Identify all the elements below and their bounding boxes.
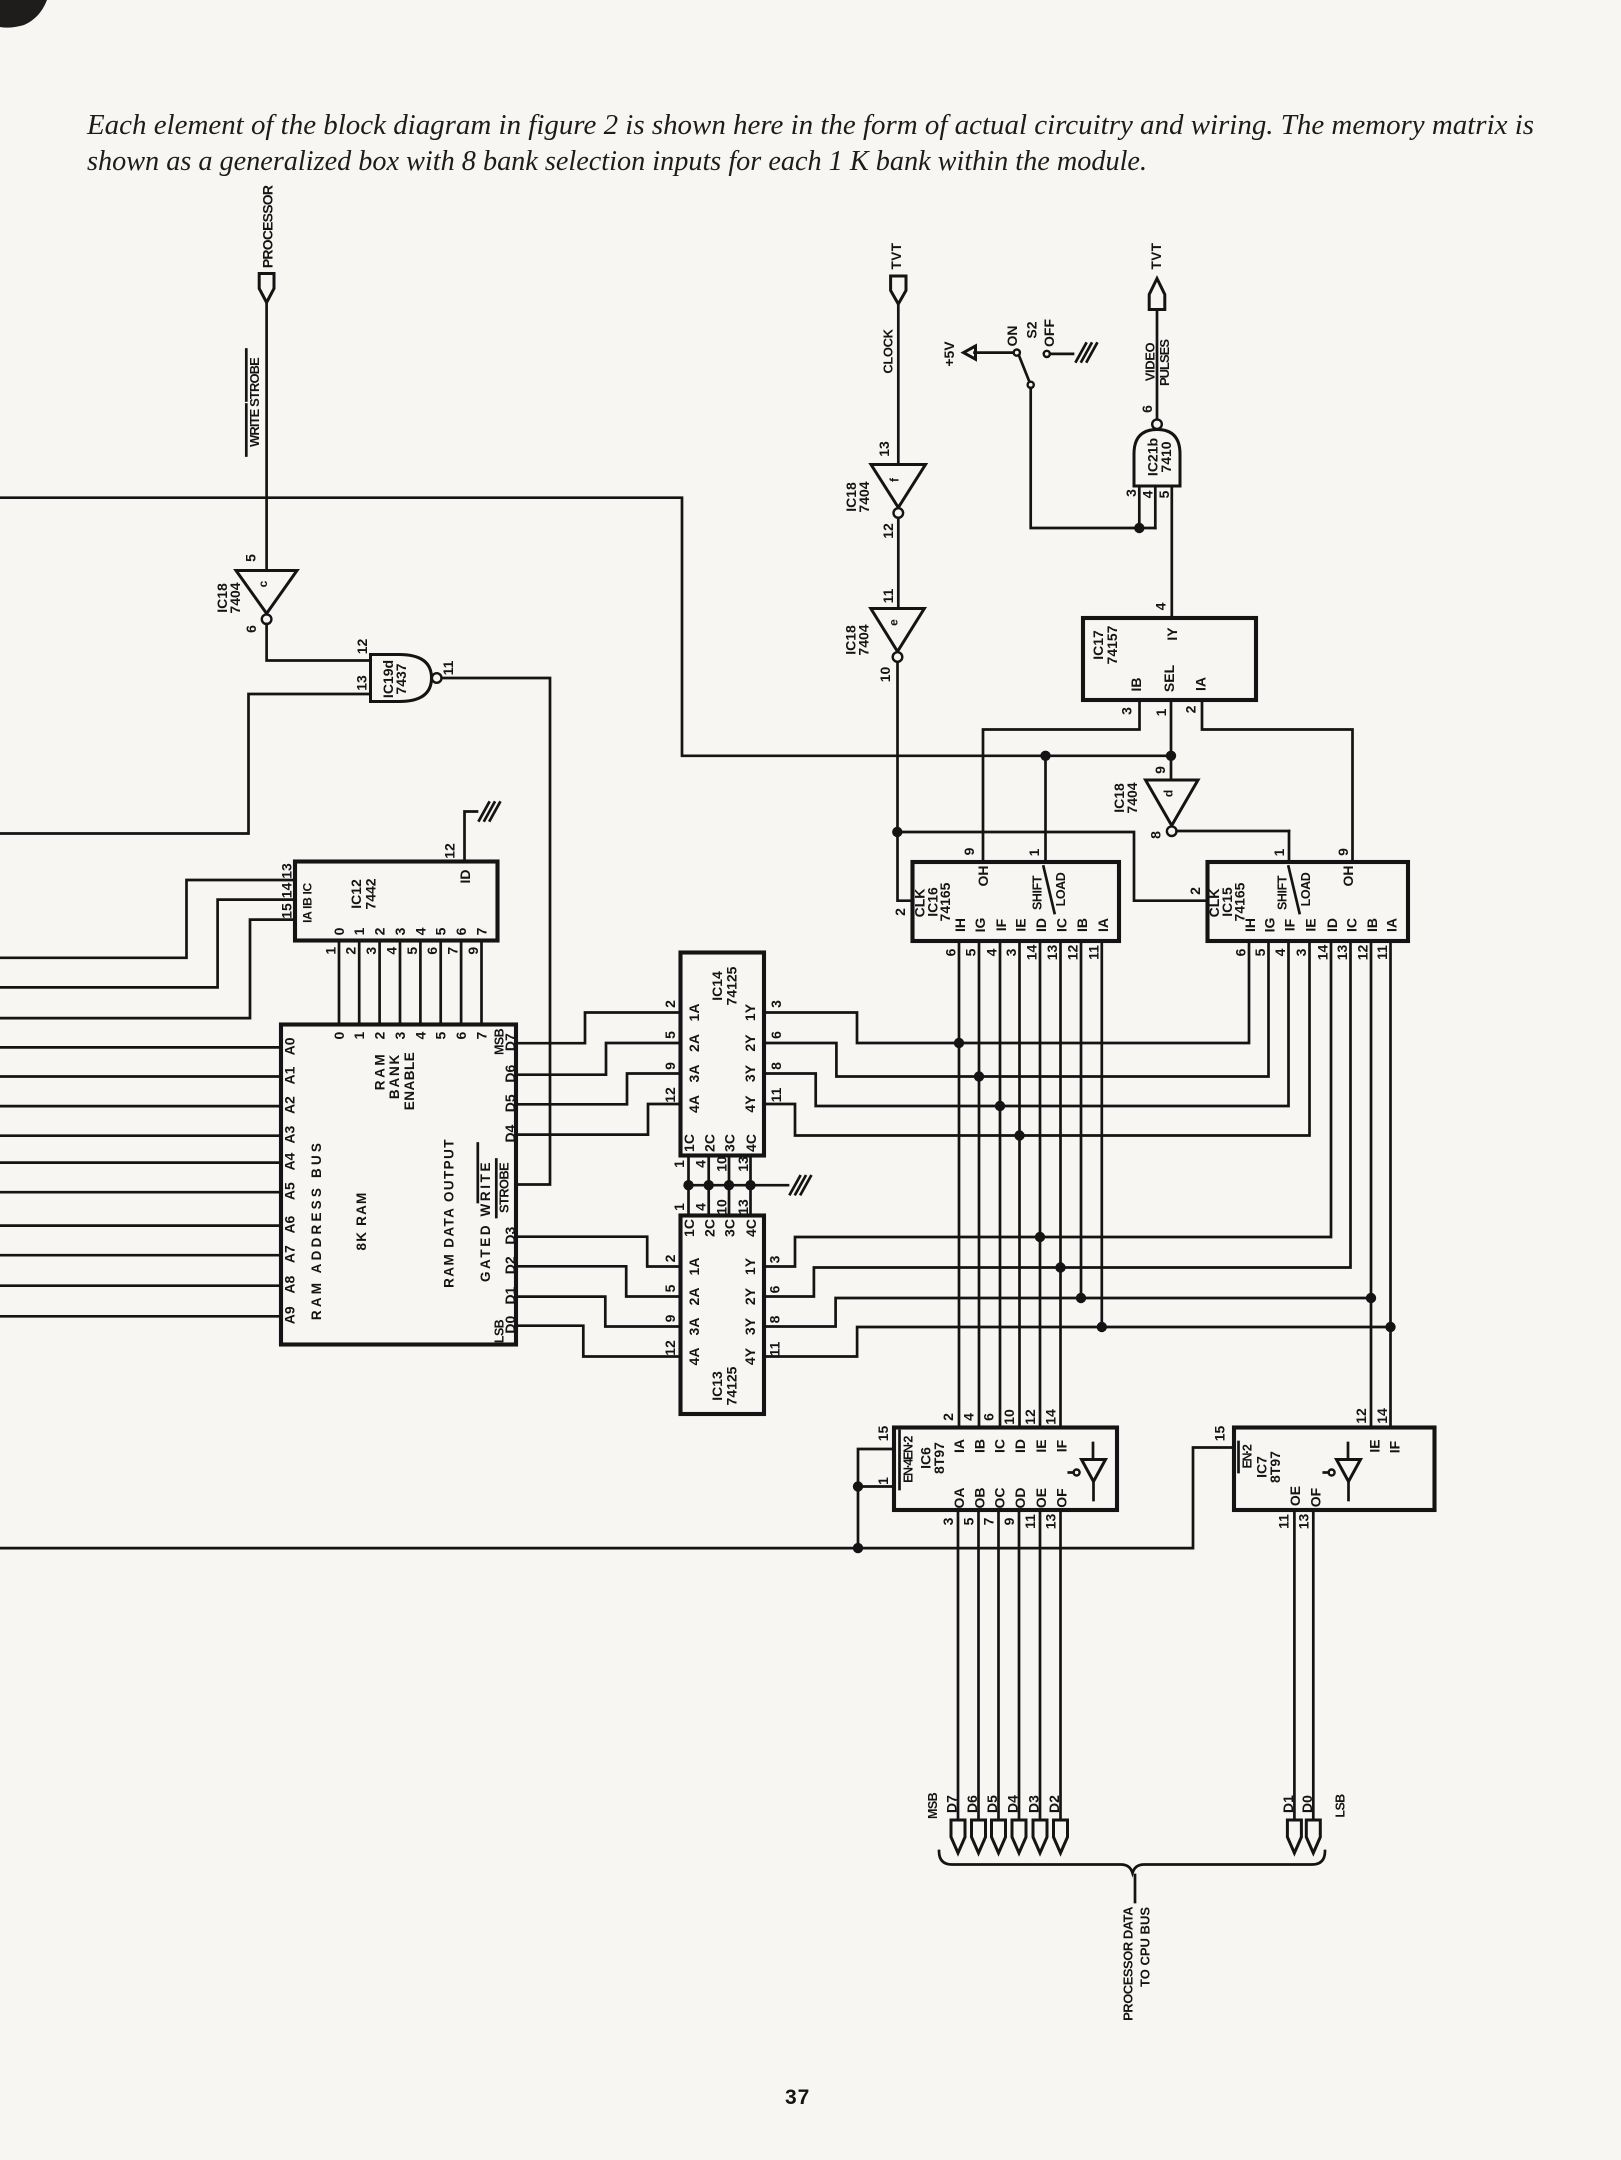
svg-text:2Y: 2Y bbox=[742, 1034, 758, 1052]
svg-text:IB: IB bbox=[1074, 918, 1090, 932]
svg-text:12: 12 bbox=[1353, 1408, 1369, 1424]
wire IC16 ID / IC6 IE vertical bbox=[1039, 941, 1042, 1428]
svg-text:1: 1 bbox=[351, 1031, 367, 1039]
svg-text:14: 14 bbox=[1043, 1409, 1059, 1425]
svg-text:A2: A2 bbox=[282, 1096, 298, 1114]
svg-text:IA: IA bbox=[1095, 918, 1111, 932]
wire IC15 IA vertical down to IC7 IF bbox=[1389, 941, 1392, 1428]
svg-text:2Y: 2Y bbox=[742, 1287, 758, 1305]
svg-text:5: 5 bbox=[1156, 490, 1172, 498]
svg-text:3: 3 bbox=[392, 927, 408, 935]
svg-text:1A: 1A bbox=[686, 1258, 702, 1276]
svg-text:14: 14 bbox=[1315, 945, 1331, 961]
svg-text:12: 12 bbox=[1022, 1409, 1038, 1425]
wires IC12 outputs 0-7 to RAM bank enables bbox=[338, 941, 341, 1025]
svg-text:3: 3 bbox=[363, 947, 379, 955]
svg-text:1: 1 bbox=[671, 1203, 687, 1211]
svg-text:SHIFT: SHIFT bbox=[1031, 875, 1045, 910]
svg-text:5: 5 bbox=[1252, 948, 1268, 956]
svg-text:9: 9 bbox=[961, 847, 977, 855]
svg-text:1C: 1C bbox=[681, 1219, 697, 1237]
wire switch arm to IC21b pins 3,4 bbox=[1031, 388, 1156, 528]
svg-text:12: 12 bbox=[662, 1340, 678, 1356]
svg-text:c: c bbox=[256, 580, 270, 587]
svg-text:GATED WRITE: GATED WRITE bbox=[478, 1160, 493, 1282]
wire clock branch to IC15 CLK pin2 bbox=[897, 832, 1207, 901]
wire address A8 bbox=[0, 1284, 281, 1287]
svg-text:+5V: +5V bbox=[941, 341, 957, 367]
svg-text:74165: 74165 bbox=[937, 882, 953, 921]
svg-text:6: 6 bbox=[424, 947, 440, 955]
svg-text:LOAD: LOAD bbox=[1054, 872, 1068, 906]
wire IC13 3Y to IC16 IB / IC7 IE bbox=[764, 1298, 1371, 1327]
svg-text:1: 1 bbox=[323, 947, 339, 955]
svg-text:4: 4 bbox=[693, 1203, 709, 1211]
svg-text:3: 3 bbox=[1293, 948, 1309, 956]
svg-text:LSB: LSB bbox=[1334, 1794, 1348, 1818]
svg-text:IH: IH bbox=[1242, 918, 1258, 932]
svg-text:4: 4 bbox=[984, 948, 1000, 956]
svg-text:74125: 74125 bbox=[724, 1366, 740, 1405]
svg-text:9: 9 bbox=[662, 1314, 678, 1322]
svg-text:5: 5 bbox=[404, 947, 420, 955]
svg-text:10: 10 bbox=[714, 1199, 730, 1215]
svg-text:12: 12 bbox=[354, 639, 370, 655]
svg-text:shown as a generalized box wit: shown as a generalized box with 8 bank s… bbox=[87, 146, 1147, 177]
svg-text:2A: 2A bbox=[686, 1288, 702, 1306]
svg-text:13: 13 bbox=[1296, 1514, 1312, 1530]
wire RAM D5 to IC14 3A bbox=[516, 1074, 681, 1105]
svg-text:IB: IB bbox=[1128, 678, 1144, 692]
svg-text:11: 11 bbox=[1085, 945, 1101, 960]
buffer IC7 8T97 bbox=[1234, 1428, 1435, 1511]
svg-text:11: 11 bbox=[1374, 945, 1390, 960]
svg-text:14: 14 bbox=[1024, 945, 1040, 961]
svg-text:6: 6 bbox=[981, 1413, 997, 1421]
svg-text:4C: 4C bbox=[743, 1134, 759, 1152]
wire IC12 pin13 input bbox=[0, 880, 295, 958]
svg-text:OC: OC bbox=[992, 1488, 1008, 1509]
svg-text:ID: ID bbox=[1012, 1439, 1028, 1453]
wire IC16 IA vertical bbox=[1100, 941, 1103, 1327]
svg-text:11: 11 bbox=[1276, 1514, 1292, 1529]
svg-text:IH: IH bbox=[952, 918, 968, 932]
svg-text:4: 4 bbox=[693, 1160, 709, 1168]
svg-text:2: 2 bbox=[372, 927, 388, 935]
svg-text:3: 3 bbox=[1003, 948, 1019, 956]
svg-text:4A: 4A bbox=[686, 1348, 702, 1366]
svg-text:S2: S2 bbox=[1024, 321, 1040, 338]
svg-text:13: 13 bbox=[354, 675, 370, 691]
wire address A7 bbox=[0, 1254, 281, 1257]
svg-text:STROBE: STROBE bbox=[497, 1162, 512, 1213]
svg-text:2: 2 bbox=[372, 1031, 388, 1039]
wire long select net from left edge to IC17 SEL bbox=[0, 498, 1171, 756]
svg-text:OF: OF bbox=[1308, 1487, 1324, 1507]
shift register IC16 74165 bbox=[913, 862, 1120, 941]
svg-text:2: 2 bbox=[892, 908, 908, 916]
svg-text:D2: D2 bbox=[1046, 1795, 1062, 1813]
svg-text:IC: IC bbox=[1054, 918, 1070, 932]
svg-text:RAM ADDRESS BUS: RAM ADDRESS BUS bbox=[309, 1140, 324, 1320]
junction dots data staircase bbox=[954, 1038, 964, 1048]
svg-text:2A: 2A bbox=[686, 1034, 702, 1052]
wire address A4 bbox=[0, 1161, 281, 1164]
wire IC13 1Y to IC16 ID / IC15 ID bbox=[764, 941, 1331, 1267]
svg-text:3A: 3A bbox=[686, 1318, 702, 1336]
svg-text:EN·2: EN·2 bbox=[1241, 1444, 1255, 1468]
svg-text:9: 9 bbox=[1001, 1517, 1017, 1525]
svg-text:IA: IA bbox=[1384, 918, 1400, 932]
buffer symbol inside IC7 bbox=[1347, 1443, 1350, 1460]
svg-text:7404: 7404 bbox=[1124, 782, 1140, 813]
wire IC16 IB vertical bbox=[1080, 941, 1083, 1298]
svg-text:IA: IA bbox=[951, 1439, 967, 1453]
svg-text:9: 9 bbox=[1152, 766, 1168, 774]
wire IC13 2Y to IC16 IC / IC15 IC bbox=[764, 941, 1351, 1297]
svg-text:12: 12 bbox=[1065, 945, 1081, 961]
svg-text:2: 2 bbox=[662, 1000, 678, 1008]
svg-text:7: 7 bbox=[474, 927, 490, 935]
switch S2 ON contact bbox=[1014, 350, 1020, 356]
svg-text:6: 6 bbox=[768, 1031, 784, 1039]
svg-text:2: 2 bbox=[343, 947, 359, 955]
svg-text:2: 2 bbox=[1183, 705, 1199, 713]
svg-text:IC: IC bbox=[992, 1439, 1008, 1453]
svg-text:3: 3 bbox=[1123, 489, 1139, 497]
svg-text:OD: OD bbox=[1012, 1488, 1028, 1509]
svg-text:2: 2 bbox=[940, 1413, 956, 1421]
svg-text:A5: A5 bbox=[282, 1182, 298, 1200]
svg-text:4Y: 4Y bbox=[742, 1095, 758, 1113]
svg-text:TVT: TVT bbox=[889, 242, 904, 269]
svg-text:IF: IF bbox=[1282, 918, 1298, 931]
svg-text:13: 13 bbox=[735, 1156, 751, 1172]
svg-text:ID: ID bbox=[1324, 918, 1340, 932]
connector TVT (clock input) bbox=[891, 276, 906, 304]
svg-text:EN·4EN·2: EN·4EN·2 bbox=[902, 1436, 916, 1483]
svg-text:15: 15 bbox=[279, 903, 295, 919]
svg-text:IG: IG bbox=[972, 918, 988, 933]
svg-text:1: 1 bbox=[671, 1160, 687, 1168]
connector PROCESSOR (to processor, write strobe input) bbox=[259, 274, 274, 303]
svg-text:IG: IG bbox=[1262, 918, 1278, 933]
svg-text:3: 3 bbox=[768, 1000, 784, 1008]
svg-text:PROCESSOR: PROCESSOR bbox=[260, 185, 276, 268]
svg-text:D4: D4 bbox=[1005, 1795, 1021, 1813]
wire IC18c out to IC19d pin 12 bbox=[267, 624, 371, 661]
wire IC16 IE / IC6 ID vertical bbox=[1018, 941, 1021, 1428]
svg-text:13: 13 bbox=[735, 1199, 751, 1215]
ground at 74125 enables bbox=[790, 1176, 800, 1194]
svg-text:IF: IF bbox=[1387, 1440, 1403, 1453]
wire IC16 IF / IC6 IC vertical bbox=[999, 941, 1002, 1428]
svg-text:8: 8 bbox=[768, 1062, 784, 1070]
svg-text:10: 10 bbox=[1001, 1409, 1017, 1425]
svg-text:A4: A4 bbox=[282, 1152, 298, 1170]
svg-text:9: 9 bbox=[1335, 848, 1351, 856]
svg-text:11: 11 bbox=[440, 660, 456, 675]
wire clock to IC16 CLK pin2 bbox=[898, 662, 913, 901]
svg-text:SEL: SEL bbox=[1161, 664, 1177, 692]
svg-text:8K RAM: 8K RAM bbox=[354, 1192, 369, 1251]
svg-text:3Y: 3Y bbox=[742, 1317, 758, 1335]
svg-text:4: 4 bbox=[1140, 490, 1156, 498]
svg-text:3: 3 bbox=[767, 1255, 783, 1263]
wire IC18f out to IC18e in bbox=[897, 518, 900, 609]
wire WRITE STROBE vertical bbox=[265, 303, 268, 571]
wire RAM D0 to IC13 4A bbox=[516, 1326, 681, 1357]
svg-text:12: 12 bbox=[1355, 945, 1371, 961]
svg-text:4: 4 bbox=[1153, 602, 1169, 610]
connectors processor data D7-D2 and D1,D0 bbox=[951, 1820, 965, 1853]
svg-text:13: 13 bbox=[876, 441, 892, 457]
svg-text:D6: D6 bbox=[964, 1795, 980, 1813]
svg-text:37: 37 bbox=[785, 2086, 810, 2109]
inverter IC18d 7404 bbox=[1170, 756, 1173, 780]
svg-text:OE: OE bbox=[1033, 1488, 1049, 1508]
buffer IC14 74125 bbox=[681, 953, 765, 1156]
wire IC16 shift/load pin1 up to SEL net bbox=[1044, 756, 1047, 862]
svg-text:IF: IF bbox=[993, 918, 1009, 931]
svg-text:IY: IY bbox=[1164, 627, 1180, 641]
wire address A6 bbox=[0, 1224, 281, 1227]
connector TVT (video pulses output) bbox=[1149, 279, 1165, 310]
wire IC14 1Y to IC16 IH / IC15 IH bbox=[764, 941, 1249, 1043]
svg-text:6: 6 bbox=[453, 1031, 469, 1039]
svg-text:1Y: 1Y bbox=[742, 1003, 758, 1021]
svg-text:5: 5 bbox=[662, 1284, 678, 1292]
brace processor data bus bbox=[939, 1851, 1325, 1873]
svg-text:CLOCK: CLOCK bbox=[881, 328, 896, 373]
svg-text:7: 7 bbox=[981, 1517, 997, 1525]
shift register IC15 74165 bbox=[1208, 862, 1409, 941]
svg-text:3: 3 bbox=[392, 1031, 408, 1039]
svg-text:Each element of the block diag: Each element of the block diagram in fig… bbox=[86, 110, 1534, 141]
wire IC12 pin14 input bbox=[0, 900, 295, 988]
wire RAM D3 to IC13 1A bbox=[516, 1237, 681, 1267]
svg-text:A7: A7 bbox=[282, 1245, 298, 1263]
svg-text:8T97: 8T97 bbox=[1267, 1451, 1283, 1483]
svg-text:2: 2 bbox=[662, 1254, 678, 1262]
svg-text:PULSES: PULSES bbox=[1157, 339, 1172, 386]
svg-text:WRITE STROBE: WRITE STROBE bbox=[247, 357, 262, 447]
svg-text:OF: OF bbox=[1054, 1488, 1070, 1508]
svg-text:4A: 4A bbox=[686, 1095, 702, 1113]
svg-text:D1: D1 bbox=[1280, 1795, 1296, 1813]
svg-text:74125: 74125 bbox=[724, 966, 740, 1005]
svg-text:PROCESSOR DATA: PROCESSOR DATA bbox=[1121, 1906, 1136, 2021]
wires IC14 enables to common ground rail bbox=[687, 1156, 690, 1186]
svg-text:2: 2 bbox=[1187, 887, 1203, 895]
wire IC19d pin 13 from left bus bbox=[0, 694, 371, 834]
wire IC17 SEL pin1 to select net bbox=[1170, 700, 1173, 756]
svg-text:1: 1 bbox=[1153, 708, 1169, 716]
svg-text:10: 10 bbox=[714, 1156, 730, 1172]
svg-text:74165: 74165 bbox=[1232, 882, 1248, 921]
wire +5V to switch bbox=[975, 351, 1014, 354]
svg-text:TVT: TVT bbox=[1149, 242, 1164, 269]
wire address A0 bbox=[0, 1046, 281, 1049]
svg-text:ID: ID bbox=[457, 870, 473, 884]
wire IC15 load pin1 from IC18d out bbox=[1288, 831, 1291, 862]
wire IC14 2Y to IC16 IG / IC15 IG bbox=[764, 941, 1269, 1077]
wire IC17 IA pin2 to IC15 OH pin9 bbox=[1202, 700, 1353, 862]
svg-text:IA IB IC: IA IB IC bbox=[300, 882, 314, 922]
svg-text:3A: 3A bbox=[686, 1065, 702, 1083]
svg-text:A1: A1 bbox=[282, 1066, 298, 1084]
wire IC16 IC / IC6 IF vertical bbox=[1059, 941, 1062, 1428]
wire IC16 OH pin9 up to IC17 IB pin3 bbox=[983, 700, 1140, 862]
svg-text:BANK: BANK bbox=[387, 1053, 402, 1099]
svg-text:ON: ON bbox=[1004, 326, 1020, 347]
wire IC14 3Y to IC16 IF / IC15 IF bbox=[764, 941, 1289, 1106]
svg-text:15: 15 bbox=[1212, 1426, 1228, 1442]
inverter IC18e 7404 bbox=[871, 609, 925, 652]
svg-text:74157: 74157 bbox=[1104, 625, 1120, 664]
wire IC12 pin15 input bbox=[0, 920, 295, 1019]
svg-text:LOAD: LOAD bbox=[1299, 872, 1313, 906]
svg-text:10: 10 bbox=[877, 667, 893, 683]
svg-text:7: 7 bbox=[474, 1031, 490, 1039]
svg-text:1Y: 1Y bbox=[742, 1257, 758, 1275]
decoder IC12 7442 bbox=[295, 862, 498, 941]
wire RAM D1 to IC13 3A bbox=[516, 1297, 681, 1327]
svg-text:D5: D5 bbox=[984, 1795, 1000, 1813]
svg-text:IA: IA bbox=[1193, 677, 1209, 691]
svg-text:4Y: 4Y bbox=[742, 1347, 758, 1365]
svg-text:13: 13 bbox=[1044, 945, 1060, 961]
wire IC15 IB vertical down to IC7 IE bbox=[1370, 941, 1373, 1428]
wire address A3 bbox=[0, 1134, 281, 1137]
memory 8K RAM block bbox=[281, 1025, 516, 1345]
buffer IC13 74125 bbox=[681, 1216, 765, 1415]
svg-text:8T97: 8T97 bbox=[931, 1442, 947, 1474]
svg-text:8: 8 bbox=[767, 1315, 783, 1323]
svg-text:1A: 1A bbox=[686, 1004, 702, 1022]
svg-text:7: 7 bbox=[445, 947, 461, 955]
svg-text:4C: 4C bbox=[743, 1219, 759, 1237]
wire IC19d out (gated write strobe) down to RAM bbox=[442, 678, 550, 1185]
svg-text:IE: IE bbox=[1367, 1439, 1383, 1452]
svg-text:A0: A0 bbox=[282, 1037, 298, 1055]
svg-text:6: 6 bbox=[767, 1285, 783, 1293]
wire RAM D6 to IC14 2A bbox=[516, 1043, 681, 1075]
svg-text:A3: A3 bbox=[282, 1126, 298, 1144]
wires IC6 outputs down to CPU bus connectors bbox=[957, 1510, 960, 1820]
svg-text:D7: D7 bbox=[944, 1795, 960, 1813]
svg-text:9: 9 bbox=[662, 1062, 678, 1070]
svg-text:0: 0 bbox=[331, 1031, 347, 1039]
svg-text:3: 3 bbox=[940, 1517, 956, 1525]
wire RAM D7 to IC14 1A bbox=[516, 1013, 681, 1044]
wire IC21b out to TVT connector bbox=[1156, 310, 1159, 420]
svg-text:IE: IE bbox=[1033, 1439, 1049, 1452]
svg-text:MSB: MSB bbox=[926, 1792, 940, 1819]
svg-text:OA: OA bbox=[951, 1488, 967, 1509]
wire IC18d out to IC15 shift/load bbox=[1177, 830, 1289, 833]
switch S2 arm bbox=[1019, 355, 1029, 381]
svg-text:IE: IE bbox=[1303, 918, 1319, 931]
svg-text:12: 12 bbox=[442, 843, 458, 859]
svg-text:4: 4 bbox=[412, 927, 428, 935]
wire IC16 IH / IC6 IA vertical bbox=[958, 941, 961, 1428]
svg-text:5: 5 bbox=[961, 1517, 977, 1525]
svg-text:SHIFT: SHIFT bbox=[1276, 875, 1290, 910]
svg-text:VIDEO: VIDEO bbox=[1143, 342, 1158, 381]
svg-text:OH: OH bbox=[1340, 866, 1356, 887]
svg-text:0: 0 bbox=[331, 927, 347, 935]
svg-text:15: 15 bbox=[875, 1426, 891, 1442]
svg-text:3C: 3C bbox=[722, 1219, 738, 1237]
svg-text:d: d bbox=[1161, 790, 1175, 797]
svg-text:D0: D0 bbox=[1299, 1795, 1315, 1813]
power +5V arrow bbox=[964, 346, 976, 359]
svg-text:1: 1 bbox=[1271, 848, 1287, 856]
svg-text:4: 4 bbox=[412, 1031, 428, 1039]
svg-text:7404: 7404 bbox=[227, 582, 243, 613]
wire IC13 4Y to IC16 IA / IC7 IF bbox=[764, 1327, 1391, 1357]
svg-text:1: 1 bbox=[1026, 848, 1042, 856]
svg-text:A6: A6 bbox=[282, 1215, 298, 1233]
svg-text:IE: IE bbox=[1013, 918, 1029, 931]
svg-text:6: 6 bbox=[1233, 948, 1249, 956]
svg-text:IB: IB bbox=[1364, 918, 1380, 932]
svg-text:7404: 7404 bbox=[856, 624, 872, 655]
buffer IC6 8T97 bbox=[894, 1428, 1117, 1511]
svg-text:9: 9 bbox=[465, 947, 481, 955]
scan corner blemish bbox=[0, 0, 47, 28]
svg-text:D3: D3 bbox=[1026, 1795, 1042, 1813]
inverter IC18c 7404 bbox=[236, 571, 297, 614]
svg-text:5: 5 bbox=[963, 948, 979, 956]
wire IC12 pin12 to ground bbox=[465, 812, 478, 862]
svg-text:7410: 7410 bbox=[1158, 441, 1174, 472]
svg-text:6: 6 bbox=[943, 948, 959, 956]
svg-text:11: 11 bbox=[880, 588, 896, 603]
NAND gate IC21b 7410 bbox=[1134, 430, 1180, 487]
svg-text:6: 6 bbox=[1139, 405, 1155, 413]
svg-text:OB: OB bbox=[972, 1488, 988, 1509]
svg-text:12: 12 bbox=[662, 1087, 678, 1103]
svg-text:RAM DATA OUTPUT: RAM DATA OUTPUT bbox=[441, 1138, 456, 1288]
svg-text:12: 12 bbox=[880, 523, 896, 539]
svg-text:1: 1 bbox=[351, 927, 367, 935]
svg-text:4: 4 bbox=[961, 1413, 977, 1421]
svg-text:6: 6 bbox=[453, 927, 469, 935]
svg-text:IB: IB bbox=[972, 1439, 988, 1453]
wire IC14 4Y to IC16 IE / IC15 IE bbox=[764, 941, 1310, 1136]
svg-text:OFF: OFF bbox=[1041, 319, 1057, 347]
svg-text:13: 13 bbox=[1043, 1514, 1059, 1530]
svg-text:5: 5 bbox=[433, 1031, 449, 1039]
svg-text:ENABLE: ENABLE bbox=[402, 1052, 417, 1111]
svg-text:5: 5 bbox=[243, 554, 259, 562]
svg-text:1C: 1C bbox=[681, 1134, 697, 1152]
svg-text:5: 5 bbox=[662, 1031, 678, 1039]
svg-text:5: 5 bbox=[433, 927, 449, 935]
wire address A9 bbox=[0, 1315, 281, 1318]
svg-text:8: 8 bbox=[1148, 831, 1164, 839]
svg-text:14: 14 bbox=[1374, 1408, 1390, 1424]
svg-text:2C: 2C bbox=[702, 1219, 718, 1237]
wire address A2 bbox=[0, 1105, 281, 1108]
wire clock in bbox=[897, 304, 900, 465]
svg-text:7442: 7442 bbox=[363, 878, 379, 909]
svg-text:13: 13 bbox=[1334, 945, 1350, 961]
svg-text:11: 11 bbox=[767, 1341, 783, 1356]
svg-text:4: 4 bbox=[1272, 948, 1288, 956]
